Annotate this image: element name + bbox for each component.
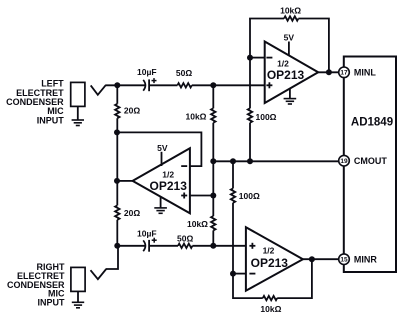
wire: feedback top left segment (U1) (249, 18, 284, 20)
op-amp U2 1/2 OP213 (middle, pointing left) (133, 148, 190, 213)
svg-text:MINR: MINR (354, 255, 377, 265)
op-amp U1 1/2 OP213 (top) (265, 42, 319, 104)
junction: 100ohm bottom to CMOUT rail (230, 158, 236, 164)
minus sign (U3) (249, 273, 255, 275)
resistor 10kohm (U3 feedback) (263, 296, 277, 300)
wire: U2 plus input (190, 195, 213, 197)
wire: cap to 50ohm (right) (149, 245, 178, 247)
svg-text:19: 19 (340, 158, 348, 165)
wire: left jack to capacitor (105, 84, 145, 86)
capacitor 10uF (right), straight plate (148, 240, 150, 252)
svg-text:20Ω: 20Ω (124, 208, 140, 218)
wire: divider line lower lead (212, 230, 214, 245)
minus sign (U2) (181, 165, 187, 167)
svg-text:1/2: 1/2 (277, 59, 289, 69)
node R1 junction (114, 243, 120, 249)
ground (right mic) (72, 302, 84, 308)
svg-text:INPUT: INPUT (37, 115, 65, 125)
ground (U2) (154, 208, 167, 213)
junction: U1 minus node (247, 55, 253, 61)
junction: divider/U2+ (210, 193, 216, 199)
resistor 10kohm (divider top) (211, 108, 215, 122)
left jack plug notch (91, 85, 106, 95)
plus polarity (right cap) (152, 238, 157, 243)
wire: U3 feedback right segment (277, 259, 312, 298)
wire: cap to 50ohm (left) (149, 84, 177, 86)
wire: U1 minus input (250, 57, 265, 59)
wire: U2 ground stem (160, 197, 162, 208)
svg-text:50Ω: 50Ω (177, 234, 193, 244)
junction: U3 output/feedback (309, 256, 315, 262)
wire: node R1 to cap (right) (117, 245, 145, 247)
wire: CMOUT rail (213, 160, 338, 162)
wire: U2 output (117, 180, 133, 182)
wire: divider line mid (212, 123, 214, 216)
left mic input text (6, 79, 64, 126)
plus sign (U1) (266, 82, 272, 88)
svg-text:5V: 5V (157, 143, 168, 153)
junction: feedback tap (114, 129, 120, 135)
resistor 20ohm (bottom) (115, 205, 119, 219)
resistor 20ohm (top) (115, 104, 119, 118)
left mic ground stem (77, 106, 79, 119)
svg-text:10kΩ: 10kΩ (187, 219, 208, 229)
wire: 50ohm to opamp U1 + input (192, 84, 265, 86)
wire: U2 feedback loop (117, 132, 201, 166)
wire: left bias line mid (116, 118, 118, 205)
wire: left bias line upper lead (116, 85, 118, 104)
wire: divider line upper lead (212, 85, 214, 108)
svg-text:100Ω: 100Ω (239, 191, 260, 201)
node L1 junction (114, 82, 120, 88)
wire: 100ohm bottom upper lead (232, 161, 234, 188)
svg-text:17: 17 (340, 70, 348, 77)
wire: U3 feedback left segment (233, 273, 263, 298)
pin 19 circle (339, 155, 350, 166)
svg-text:5V: 5V (284, 33, 295, 43)
pin 15 circle (339, 254, 350, 265)
svg-text:AD1849: AD1849 (351, 117, 393, 129)
right mic input text (7, 262, 65, 307)
svg-text:OP213: OP213 (267, 68, 305, 82)
resistor 50ohm (left) (177, 83, 191, 87)
svg-text:10kΩ: 10kΩ (260, 304, 281, 314)
wire: 5V stem (U1) (288, 42, 290, 56)
svg-text:10kΩ: 10kΩ (280, 6, 301, 16)
op-amp U3 1/2 OP213 (bottom) (246, 227, 303, 291)
junction: U1 output/feedback (326, 69, 332, 75)
junction: U3 minus node (230, 271, 236, 277)
svg-text:10µF: 10µF (137, 67, 157, 77)
svg-text:10kΩ: 10kΩ (186, 111, 207, 121)
svg-text:OP213: OP213 (251, 256, 289, 270)
wire: 5V stem (U2) (161, 152, 163, 166)
junction: divider/CMOUT (210, 158, 216, 164)
wire: feedback top right segment (U1) (298, 19, 329, 73)
wire: U3 minus input (233, 273, 246, 275)
resistor 50ohm (right) (178, 244, 192, 248)
wire: 50ohm to opamp U3 + input (192, 245, 246, 247)
wire: right jack to node R1 (106, 246, 118, 269)
wire: 100ohm top lower lead (249, 123, 251, 162)
minus sign (U1) (266, 57, 272, 59)
wire: U1 ground stem (289, 89, 291, 99)
ground (left mic) (72, 120, 84, 126)
wire: U3 output (303, 258, 339, 260)
svg-text:1/2: 1/2 (263, 245, 275, 255)
svg-text:OP213: OP213 (150, 179, 188, 193)
wire: U1 output (318, 71, 339, 73)
junction: divider bottom (210, 243, 216, 249)
capacitor 10uF (left), straight plate (148, 79, 150, 91)
junction: U2 output tap (114, 178, 120, 184)
svg-text:50Ω: 50Ω (176, 68, 192, 78)
right jack plug notch (91, 269, 107, 279)
resistor 10kohm (U1 feedback) (284, 16, 298, 20)
svg-text:CMOUT: CMOUT (354, 156, 387, 166)
svg-text:15: 15 (340, 257, 348, 264)
svg-text:INPUT: INPUT (38, 297, 66, 307)
right electret mic body (71, 267, 85, 291)
resistor 100ohm (top) (248, 108, 252, 122)
plus polarity (left cap) (152, 78, 157, 83)
wire: feedback left vertical (U1) (249, 19, 251, 109)
node divider top junction (210, 82, 216, 88)
resistor 10kohm (divider bottom) (211, 216, 215, 230)
svg-text:20Ω: 20Ω (124, 105, 140, 115)
svg-text:10µF: 10µF (137, 229, 157, 239)
pin 17 circle (339, 67, 350, 78)
junction: 100ohm top to CMOUT rail (247, 158, 253, 164)
left electret mic body (71, 82, 85, 106)
resistor 100ohm (bottom) (231, 188, 235, 202)
plus sign (U3) (249, 243, 255, 249)
AD1849 box (344, 57, 396, 273)
ground (U1) (284, 99, 297, 104)
right mic ground stem (77, 291, 79, 302)
wire: left bias line lower lead (116, 220, 118, 246)
plus sign (U2) (181, 193, 187, 199)
wire: 100ohm bottom lower lead (232, 203, 234, 274)
svg-text:MINL: MINL (354, 68, 376, 78)
svg-text:100Ω: 100Ω (256, 112, 277, 122)
svg-text:1/2: 1/2 (162, 170, 174, 180)
capacitor 10uF (left), curved plate (143, 80, 145, 91)
capacitor 10uF (right), curved plate (143, 240, 145, 251)
